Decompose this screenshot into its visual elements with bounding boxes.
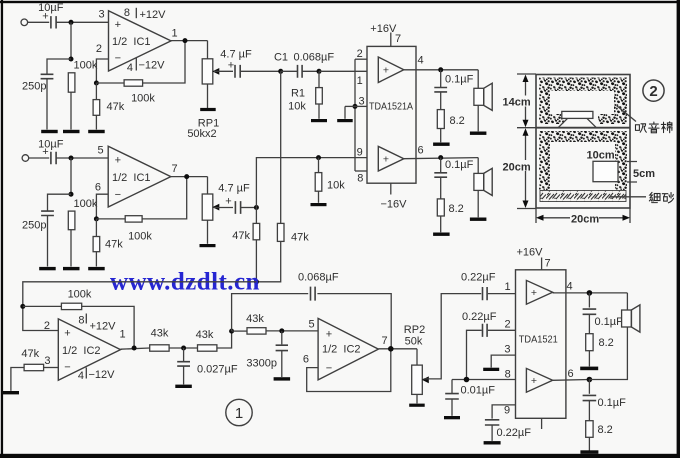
ground	[41, 130, 58, 133]
ground (3300p)	[274, 377, 291, 380]
ground (RP1a)	[200, 108, 216, 111]
wire	[440, 178, 442, 199]
label 20cm bottom	[570, 213, 599, 225]
node	[254, 279, 259, 284]
svg-text:−16V: −16V	[381, 199, 408, 211]
potentiometer RP1a 50k	[202, 59, 213, 84]
wire	[232, 330, 247, 332]
sand layer (hatched)	[540, 191, 626, 202]
wire	[207, 177, 209, 194]
svg-text:1/2 IC2: 1/2 IC2	[322, 344, 361, 356]
svg-text:3: 3	[504, 344, 510, 356]
wire	[488, 293, 516, 295]
svg-text:47k: 47k	[21, 348, 39, 360]
wire	[477, 190, 479, 217]
wire	[70, 92, 72, 129]
svg-text:+: +	[225, 196, 231, 208]
ground (0.027uF)	[175, 385, 192, 388]
svg-text:3: 3	[358, 96, 364, 108]
ground (0.01uF)	[444, 416, 460, 419]
wire	[95, 252, 97, 267]
wire (feedback riser)	[232, 294, 309, 332]
wire	[266, 330, 318, 332]
resistor 47k (sub mix L)	[253, 223, 260, 239]
svg-text:8: 8	[124, 7, 130, 19]
capacitor 0.068uF (left)	[298, 65, 303, 78]
wire	[95, 83, 97, 100]
svg-text:10µF: 10µF	[38, 2, 64, 14]
svg-text:0.068µF: 0.068µF	[294, 52, 335, 64]
wire	[207, 220, 209, 244]
svg-text:2: 2	[44, 320, 50, 332]
pin 4 tick	[85, 368, 87, 379]
svg-text:100k: 100k	[74, 60, 98, 72]
wire	[488, 329, 516, 331]
svg-text:100k: 100k	[128, 230, 152, 242]
resistor 100k (feedback IC2a)	[61, 303, 81, 309]
figure label circled 1	[226, 399, 252, 425]
svg-text:+: +	[64, 328, 70, 340]
wire	[416, 394, 418, 403]
wire (pin 3)	[491, 355, 515, 367]
svg-text:2: 2	[96, 43, 102, 55]
resistor 47k (sub mix R)	[277, 223, 284, 241]
wire	[240, 70, 280, 72]
wire	[440, 92, 442, 109]
node	[316, 155, 321, 160]
wire	[56, 157, 108, 159]
svg-text:47k: 47k	[107, 101, 125, 113]
ground (zobel 3)	[580, 367, 598, 371]
wire	[626, 293, 628, 312]
node output 4	[438, 67, 443, 72]
wire	[169, 347, 197, 349]
svg-text:4: 4	[127, 62, 133, 74]
wire (mix bus)	[23, 282, 257, 331]
wire	[46, 79, 48, 130]
wire	[588, 293, 590, 308]
wire	[588, 401, 590, 421]
input jack J1 (left channel)	[21, 19, 28, 26]
wire (IC2a output)	[121, 348, 150, 349]
svg-text:7: 7	[171, 163, 177, 175]
svg-text:0.22µF: 0.22µF	[462, 311, 497, 323]
wire	[70, 158, 72, 194]
svg-text:7: 7	[544, 258, 550, 270]
box outer wall	[536, 75, 630, 209]
label absorbing cotton pointer	[617, 106, 637, 122]
wire (IC1b output)	[171, 176, 208, 178]
pin bracket line	[354, 59, 356, 171]
node	[94, 81, 99, 86]
speaker SP1	[474, 88, 484, 105]
svg-text:8.2: 8.2	[450, 115, 465, 127]
svg-text:0.068µF: 0.068µF	[298, 271, 339, 283]
wire	[82, 306, 134, 348]
ground (zobel 1)	[433, 143, 450, 146]
wire (C1 drop)	[280, 71, 282, 223]
ground	[88, 267, 105, 270]
capacitor 4.7uF (right)	[235, 201, 240, 214]
svg-text:9: 9	[504, 405, 510, 417]
svg-text:8: 8	[78, 315, 84, 327]
ground	[39, 267, 56, 270]
svg-text:R1: R1	[291, 88, 305, 100]
svg-text:20cm: 20cm	[503, 161, 531, 173]
wire	[207, 41, 209, 59]
resistor 43k (second)	[198, 345, 217, 351]
svg-text:+: +	[115, 155, 121, 167]
svg-text:RP2: RP2	[404, 324, 425, 336]
svg-text:4.7 µF: 4.7 µF	[220, 49, 252, 61]
box absorbing lining bottom chamber	[539, 131, 627, 142]
capacitor 0.22uF (pin9)	[485, 420, 499, 425]
label 14cm	[502, 96, 529, 107]
svg-text:6: 6	[95, 182, 101, 194]
svg-text:3: 3	[44, 355, 50, 367]
wire	[241, 207, 257, 209]
node	[464, 377, 470, 383]
resistor 47k	[93, 100, 100, 116]
pin power bottom line	[390, 183, 392, 194]
ground (zobel 4)	[580, 450, 598, 454]
wire	[424, 294, 482, 379]
svg-text:4.7 µF: 4.7 µF	[218, 183, 250, 195]
wire (IC1a output)	[171, 40, 208, 42]
svg-text:1/2 IC2: 1/2 IC2	[62, 345, 101, 357]
resistor 100k (feedback IC1b)	[125, 216, 142, 222]
wire	[256, 158, 367, 208]
svg-text:1/2 IC1: 1/2 IC1	[112, 172, 151, 184]
svg-text:7: 7	[395, 33, 401, 45]
wire	[183, 348, 185, 362]
svg-text:0.22µF: 0.22µF	[461, 271, 496, 283]
resistor 43k (third)	[247, 328, 266, 334]
ground (SP2)	[470, 218, 487, 221]
svg-text:4: 4	[78, 370, 84, 382]
wire	[281, 351, 283, 377]
wire	[440, 158, 442, 173]
resistor 8.2 (zobel 2)	[437, 199, 444, 216]
wire	[207, 84, 209, 108]
wire	[344, 106, 346, 118]
wire	[491, 425, 493, 441]
amp C top triangle	[526, 280, 552, 304]
wire	[11, 368, 24, 391]
svg-text:+: +	[531, 375, 537, 387]
svg-text:4: 4	[566, 281, 572, 293]
dimension ticks bottom	[536, 209, 630, 224]
wire	[281, 331, 283, 345]
wire	[319, 70, 367, 72]
svg-text:2: 2	[504, 319, 510, 331]
pin 7 line	[541, 258, 543, 270]
svg-text:3: 3	[98, 9, 104, 21]
ground	[88, 130, 105, 133]
wire	[217, 331, 232, 348]
svg-text:0.1µF: 0.1µF	[445, 159, 474, 171]
wire	[48, 194, 72, 211]
wire	[142, 177, 187, 219]
wire	[318, 71, 320, 87]
svg-text:7: 7	[381, 335, 387, 347]
svg-text:10k: 10k	[288, 101, 306, 113]
amp A top triangle	[378, 57, 404, 83]
svg-text:+: +	[531, 287, 537, 299]
capacitor 0.22uF (pin2)	[483, 324, 488, 337]
wire	[440, 216, 442, 232]
svg-text:8.2: 8.2	[598, 424, 613, 436]
wire	[416, 349, 418, 365]
resistor 47k (right)	[93, 237, 100, 252]
wire	[318, 191, 320, 203]
ground	[63, 267, 80, 270]
svg-text:2: 2	[649, 83, 657, 100]
amp B bottom triangle	[378, 146, 404, 171]
svg-text:3300p: 3300p	[246, 358, 277, 370]
wire	[255, 240, 257, 282]
node C1	[278, 69, 283, 74]
dimension arrow 20cm bottom	[541, 217, 627, 219]
capacitor 250p	[41, 74, 54, 78]
resistor 8.2 (zobel 1)	[437, 110, 444, 129]
svg-text:43k: 43k	[246, 313, 264, 325]
svg-text:1: 1	[504, 281, 510, 293]
svg-text:−: −	[115, 189, 121, 201]
wire	[440, 70, 442, 87]
svg-text:10k: 10k	[327, 180, 345, 192]
wire	[214, 70, 233, 72]
svg-text:2: 2	[357, 48, 363, 60]
wire	[281, 70, 298, 72]
svg-text:100k: 100k	[74, 198, 98, 210]
wire	[553, 379, 590, 382]
node pin 3	[353, 104, 358, 109]
svg-text:6: 6	[567, 368, 573, 380]
capacitor 0.1uF (zobel 3)	[583, 309, 597, 314]
wire	[96, 82, 124, 84]
svg-text:8.2: 8.2	[599, 337, 614, 349]
potentiometer RP2 50k	[412, 365, 423, 394]
svg-text:5: 5	[97, 144, 103, 156]
op-amp U1A 1/2 IC1	[109, 11, 172, 71]
power amp U2 TDA1521A box	[367, 46, 416, 183]
svg-text:−12V: −12V	[89, 369, 116, 381]
wire	[440, 129, 442, 143]
wire	[96, 218, 125, 220]
capacitor 0.068uF (sub feedback)	[311, 287, 316, 301]
svg-text:5cm: 5cm	[633, 168, 655, 180]
op-amp U3A 1/2 IC2	[58, 319, 120, 380]
wire	[318, 158, 320, 173]
resistor 100k (input bias)	[68, 73, 75, 92]
svg-text:47k: 47k	[291, 232, 309, 244]
resistor 100k (feedback IC1a)	[124, 80, 143, 86]
node output 4	[587, 290, 593, 296]
svg-text:50kx2: 50kx2	[187, 128, 216, 140]
ground (zobel 2)	[433, 233, 450, 236]
svg-text:−12V: −12V	[139, 60, 166, 72]
node	[132, 346, 137, 351]
svg-text:1: 1	[235, 405, 243, 422]
node	[229, 329, 234, 334]
svg-text:4: 4	[417, 55, 423, 67]
svg-text:TDA1521: TDA1521	[519, 335, 558, 346]
svg-text:1: 1	[357, 75, 363, 87]
pin 2 stub	[355, 58, 367, 60]
pin 3 stub	[355, 105, 367, 107]
svg-text:8.2: 8.2	[449, 203, 464, 215]
svg-text:0.22µF: 0.22µF	[497, 427, 532, 439]
node	[69, 156, 74, 161]
ground (RP2)	[409, 404, 425, 407]
wire	[302, 70, 319, 72]
svg-text:8: 8	[357, 173, 363, 185]
resistor R1 10k	[316, 88, 323, 104]
svg-text:+16V: +16V	[517, 247, 544, 259]
wire	[96, 59, 108, 83]
wire	[28, 21, 50, 23]
svg-text:TDA1521A: TDA1521A	[369, 102, 413, 113]
svg-text:47k: 47k	[105, 239, 123, 251]
op-amp U3B 1/2 IC2	[318, 318, 378, 380]
svg-text:+16V: +16V	[370, 23, 397, 35]
svg-text:+12V: +12V	[90, 321, 117, 333]
capacitor C 10uF (input coupling)	[51, 16, 56, 28]
wire	[95, 219, 97, 237]
node output 6	[587, 377, 593, 383]
resistor 10k (right)	[315, 173, 322, 192]
node	[69, 192, 74, 197]
svg-text:−: −	[64, 361, 70, 373]
svg-text:1/2 IC1: 1/2 IC1	[112, 36, 151, 48]
svg-text:+12V: +12V	[140, 9, 167, 21]
port rectangle 10cm x 5cm	[593, 161, 618, 181]
capacitor 4.7uF (left)	[235, 65, 240, 78]
svg-text:10µF: 10µF	[38, 138, 64, 150]
ground (RP1b)	[200, 244, 216, 247]
resistor 8.2 (zobel 4)	[586, 421, 593, 438]
wire	[96, 194, 108, 219]
box absorbing lining top chamber	[539, 78, 627, 92]
svg-text:+: +	[383, 153, 389, 165]
ground (pin 3)	[337, 119, 353, 122]
capacitor 0.22uF (pin1)	[483, 287, 488, 300]
frame border	[0, 1, 680, 3]
wire	[588, 380, 590, 394]
resistor 100k (right bias)	[68, 211, 75, 230]
svg-text:+: +	[228, 60, 234, 72]
ground (pin9 cap)	[484, 441, 501, 444]
speaker driver in box	[562, 111, 593, 118]
svg-text:C1: C1	[274, 52, 288, 64]
svg-text:100k: 100k	[131, 93, 155, 105]
wire	[588, 351, 590, 367]
wire	[589, 327, 627, 380]
svg-text:250p: 250p	[22, 219, 46, 231]
svg-text:250p: 250p	[22, 81, 46, 93]
node	[388, 346, 394, 352]
capacitor 0.1uF (zobel 4)	[583, 395, 597, 400]
wire (pin 8)	[452, 379, 516, 381]
pin 5 bottom stub	[541, 418, 543, 429]
wire	[255, 208, 257, 224]
wire	[47, 59, 71, 74]
pin 8 tick	[85, 314, 87, 324]
svg-text:10cm: 10cm	[587, 150, 615, 162]
wire	[56, 21, 108, 23]
svg-text:14cm: 14cm	[503, 96, 531, 108]
svg-text:6: 6	[417, 145, 423, 157]
svg-text:+: +	[326, 329, 332, 341]
svg-text:+: +	[383, 65, 389, 77]
ground (IC2a pin3)	[2, 391, 19, 394]
input jack J2 (right channel)	[22, 155, 29, 162]
ground (10k right)	[311, 203, 327, 206]
wire	[47, 216, 49, 267]
wire	[317, 294, 391, 349]
svg-text:5: 5	[308, 318, 314, 330]
svg-text:9: 9	[357, 146, 363, 158]
label sand pointer	[610, 196, 646, 198]
node	[20, 304, 25, 309]
node output 6	[438, 155, 443, 160]
pin 7 line	[390, 33, 392, 47]
wire	[256, 241, 280, 281]
dimension arrow 20cm left	[525, 132, 527, 204]
wire	[70, 22, 72, 59]
svg-text:0.01µF: 0.01µF	[461, 385, 496, 397]
wire	[467, 330, 482, 379]
svg-text:47k: 47k	[232, 230, 250, 242]
wire	[345, 105, 355, 107]
wire	[451, 399, 453, 416]
node	[94, 216, 99, 221]
wire	[553, 292, 628, 294]
resistor 43k (first)	[150, 345, 169, 351]
svg-text:+: +	[115, 19, 121, 31]
pin 4 tick	[135, 58, 137, 71]
pin 8 stub	[355, 170, 367, 172]
capacitor 0.027uF	[177, 362, 190, 366]
capacitor 250p (right)	[41, 211, 54, 215]
node	[69, 57, 74, 62]
label XiSha (fine sand)	[649, 192, 660, 202]
wire (pin6 loop)	[307, 349, 391, 392]
wire (IC2b output)	[378, 348, 417, 350]
svg-text:20cm: 20cm	[571, 213, 599, 225]
potentiometer RP1b 50k	[202, 194, 213, 220]
svg-text:8: 8	[505, 369, 511, 381]
node	[317, 69, 322, 74]
ground	[63, 130, 80, 133]
svg-text:0.1µF: 0.1µF	[595, 316, 624, 328]
power amp U4 TDA1521 box	[516, 270, 566, 419]
op-amp U1B 1/2 IC1	[108, 146, 171, 207]
wire	[404, 158, 478, 159]
svg-text:0.027µF: 0.027µF	[197, 364, 238, 376]
capacitor 0.01uF	[445, 394, 459, 399]
wire	[588, 314, 590, 333]
dimension arrow 14cm	[525, 79, 527, 123]
node	[254, 205, 259, 210]
node	[181, 346, 186, 351]
pin 8 tick	[135, 8, 137, 18]
label XiYinMian (absorbing cotton)	[635, 124, 646, 132]
node	[279, 328, 284, 333]
ground (pin 3)	[483, 368, 499, 371]
label 20cm left	[502, 160, 529, 171]
